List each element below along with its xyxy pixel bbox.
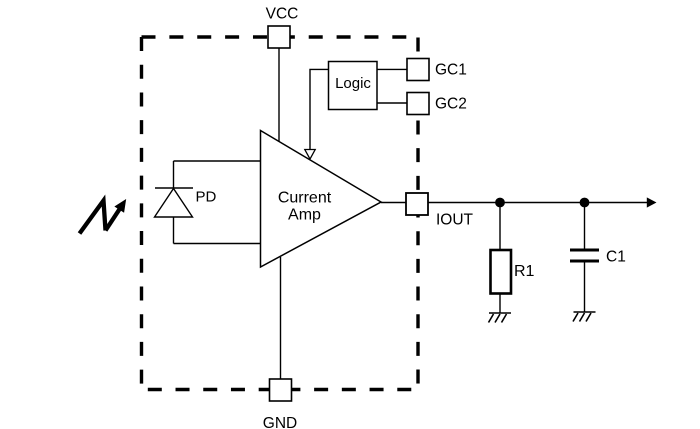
svg-text:GND: GND: [263, 415, 297, 429]
svg-text:R1: R1: [514, 263, 535, 280]
ground under C1: [573, 312, 596, 322]
light arrowhead: [115, 200, 125, 212]
svg-text:Current: Current: [278, 189, 332, 206]
wire amp to GND pad: [280, 257, 282, 379]
Logic box: [329, 62, 378, 110]
GC1 pad: [407, 59, 429, 81]
wire Logic left to control arrow: [310, 69, 329, 149]
IOUT pad: [406, 193, 428, 215]
light input arrow: [80, 201, 120, 234]
output wire: [428, 202, 647, 204]
node junction at C1: [580, 198, 590, 208]
wire PD loop bottom: [174, 243, 261, 245]
resistor R1: [491, 250, 512, 294]
GND pad: [270, 379, 292, 401]
svg-text:GC2: GC2: [435, 96, 467, 113]
wire VCC to amp: [278, 48, 280, 142]
output arrowhead: [647, 197, 657, 207]
capacitor C1: [570, 250, 599, 261]
dashed IC boundary: [142, 37, 419, 390]
wire Logic to GC2: [377, 102, 407, 104]
op-amp current amplifier: [261, 131, 382, 268]
wire amp output to IOUT pad: [381, 202, 406, 204]
wire PD loop top: [174, 160, 261, 162]
open arrowhead at amp control input: [305, 150, 315, 160]
wire node to R1: [499, 203, 501, 251]
svg-text:IOUT: IOUT: [436, 211, 474, 228]
VCC pad: [268, 26, 290, 48]
svg-text:VCC: VCC: [266, 5, 299, 22]
wire C1 to ground: [584, 263, 586, 313]
svg-text:C1: C1: [606, 249, 626, 266]
svg-text:Amp: Amp: [288, 207, 321, 224]
wire PD anode: [173, 161, 175, 188]
wire PD cathode: [173, 217, 175, 244]
ground under R1: [489, 313, 512, 323]
svg-text:PD: PD: [196, 189, 217, 206]
svg-text:Logic: Logic: [335, 75, 371, 92]
wire node to C1: [584, 203, 586, 249]
photodiode PD: [155, 188, 194, 217]
wire Logic to GC1: [377, 68, 407, 70]
wire R1 to ground: [499, 294, 501, 314]
GC2 pad: [407, 93, 429, 115]
node junction at R1: [495, 198, 505, 208]
svg-text:GC1: GC1: [435, 62, 467, 79]
